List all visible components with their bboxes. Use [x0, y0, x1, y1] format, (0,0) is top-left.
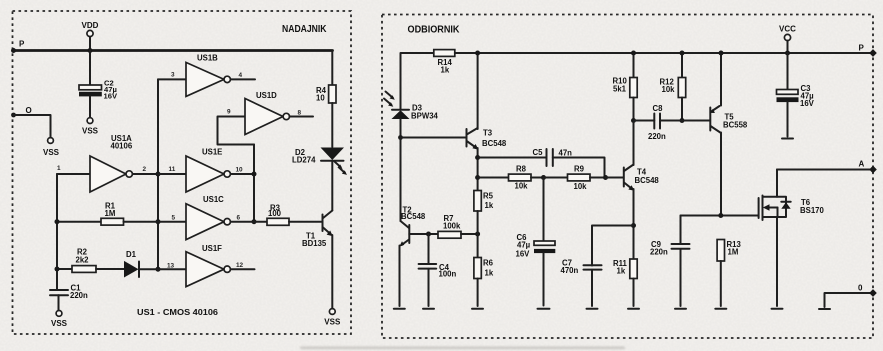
- svg-text:47n: 47n: [559, 149, 573, 158]
- svg-text:US1F: US1F: [202, 244, 222, 253]
- resistor R14 1k: [434, 50, 455, 75]
- svg-text:2k2: 2k2: [76, 256, 90, 265]
- diode D1: [124, 250, 186, 278]
- junction bus / US1A out: [156, 172, 161, 177]
- capacitor C6 47u 16V: [516, 178, 556, 306]
- junction R8/R9/C6: [541, 175, 546, 180]
- ground tick R13: [715, 308, 726, 310]
- ground tick T2: [394, 308, 405, 310]
- pin 12: [236, 262, 244, 269]
- wire receiver supply rail: [401, 53, 434, 109]
- VDD terminal: [82, 21, 99, 37]
- junction bus / D1 row: [156, 267, 161, 272]
- pin 8: [298, 110, 302, 117]
- wire O to VSS: [14, 115, 51, 137]
- wire US1B input: [158, 78, 186, 80]
- svg-text:US1C: US1C: [203, 195, 224, 204]
- transistor T5 BC558: [710, 106, 748, 133]
- junction D3 node: [398, 135, 403, 140]
- wire feedback bus vertical: [157, 79, 159, 269]
- wire rail to C2: [89, 51, 91, 86]
- junction R2 left: [55, 267, 60, 272]
- op-amp US1D inverter: [245, 91, 289, 135]
- wire US1F output stub: [231, 268, 255, 270]
- MOSFET T6 BS170: [759, 196, 825, 221]
- svg-text:11: 11: [169, 166, 176, 173]
- svg-text:LD274: LD274: [292, 156, 316, 165]
- svg-text:1M: 1M: [728, 248, 739, 257]
- junction T4 emitter / C7 row: [631, 223, 636, 228]
- svg-text:100k: 100k: [443, 222, 461, 231]
- resistor R5 1k: [474, 191, 494, 258]
- pin 1: [57, 165, 61, 172]
- junction T5 collector / R13: [718, 213, 723, 218]
- svg-text:4: 4: [239, 72, 243, 79]
- svg-text:VSS: VSS: [82, 127, 99, 136]
- svg-text:A: A: [859, 160, 865, 169]
- terminal A: [869, 166, 877, 174]
- ground tick C4: [423, 308, 434, 310]
- VCC terminal: [779, 25, 796, 41]
- svg-text:1k: 1k: [485, 201, 494, 210]
- node A output wire: [777, 160, 873, 170]
- svg-text:220n: 220n: [650, 248, 668, 257]
- junction T5 emitter rail: [719, 51, 724, 56]
- svg-text:13: 13: [167, 263, 175, 270]
- wire rail right of R14: [455, 52, 873, 54]
- svg-text:470n: 470n: [561, 266, 579, 275]
- svg-text:BC548: BC548: [635, 176, 660, 185]
- wire US1A input: [57, 173, 90, 175]
- svg-text:VSS: VSS: [43, 148, 60, 157]
- svg-text:2: 2: [143, 166, 147, 173]
- wire VDD to P rail: [89, 37, 91, 51]
- ground tick C9: [675, 308, 686, 310]
- svg-text:US1D: US1D: [256, 91, 277, 100]
- ground tick R11: [628, 308, 639, 310]
- ground tick T6: [772, 308, 783, 310]
- svg-text:VSS: VSS: [51, 319, 68, 328]
- capacitor C2 47u 16V: [79, 79, 118, 101]
- pin 13: [167, 263, 175, 270]
- capacitor C4 100n: [419, 234, 457, 306]
- svg-text:3: 3: [171, 72, 175, 79]
- node O (left terminal): [11, 106, 32, 117]
- wire P supply rail: [14, 49, 333, 52]
- svg-text:220n: 220n: [648, 132, 666, 141]
- pin 2: [143, 166, 147, 173]
- svg-text:VCC: VCC: [779, 25, 796, 34]
- receiver panel border: [382, 15, 873, 339]
- wire output bus vertical: [253, 145, 255, 222]
- transistor T1 BD135: [302, 211, 333, 249]
- resistor R13 1M: [717, 240, 741, 307]
- svg-text:T3: T3: [483, 129, 493, 138]
- wire T3 collector to rail: [477, 53, 479, 129]
- svg-text:6: 6: [237, 214, 241, 221]
- wire D3 node to T3 base: [401, 137, 467, 139]
- resistor R3 100: [267, 204, 322, 226]
- resistor R6 1k: [474, 258, 494, 307]
- svg-text:VDD: VDD: [82, 21, 99, 30]
- svg-text:10k: 10k: [515, 182, 529, 191]
- VSS terminal below T1: [324, 309, 341, 327]
- junction T4 base node: [603, 175, 608, 180]
- svg-text:BPW34: BPW34: [411, 112, 439, 121]
- svg-text:1M: 1M: [105, 209, 116, 218]
- svg-text:O: O: [26, 106, 32, 115]
- junction emitter / C5: [475, 155, 480, 160]
- capacitor C8 220n: [634, 104, 711, 141]
- svg-text:40106: 40106: [111, 142, 133, 151]
- ground tick C7: [587, 308, 598, 310]
- ground tick 0: [819, 308, 830, 310]
- svg-text:5k1: 5k1: [613, 84, 627, 93]
- scan artifact smudge below panels: [300, 347, 625, 350]
- pin 5: [172, 214, 176, 221]
- svg-text:10k: 10k: [662, 85, 676, 94]
- junction US1C out: [252, 219, 257, 224]
- transistor T4 BC548: [624, 165, 660, 191]
- svg-text:1k: 1k: [441, 66, 450, 75]
- svg-text:C5: C5: [533, 148, 544, 157]
- resistor R2 2k2: [57, 248, 125, 273]
- pin 9: [227, 109, 231, 116]
- wire US1A output to US1E input: [132, 173, 186, 175]
- svg-text:16V: 16V: [800, 99, 815, 108]
- pin 6: [237, 214, 241, 221]
- wire D3 node to T2 collector: [400, 138, 402, 222]
- capacitor C5 47n: [478, 148, 605, 178]
- VSS terminal below C2: [82, 118, 99, 136]
- capacitor C3 47u 16V: [777, 53, 815, 137]
- svg-text:C8: C8: [653, 104, 664, 113]
- ground tick R6: [472, 308, 483, 310]
- transmitter panel border: [13, 11, 352, 334]
- wire T1 emitter to VSS: [331, 235, 333, 309]
- resistor R4 10: [316, 51, 336, 148]
- svg-text:ODBIORNIK: ODBIORNIK: [408, 25, 461, 36]
- svg-text:1: 1: [57, 165, 61, 172]
- svg-text:P: P: [859, 44, 865, 53]
- wire T4 emitter down: [633, 189, 635, 259]
- svg-text:1k: 1k: [485, 269, 494, 278]
- wire US1C output to R3: [231, 221, 268, 223]
- junction R12/T5 base: [680, 118, 685, 123]
- resistor R11 1k: [613, 259, 637, 306]
- capacitor C1 220n: [50, 283, 88, 310]
- wire T2 base row: [409, 233, 438, 235]
- wire C5/R9 node to T4 base: [606, 177, 624, 179]
- panel title ODBIORNIK: [408, 25, 461, 36]
- transistor T2 BC548: [399, 206, 426, 247]
- VSS terminal below O: [43, 138, 60, 157]
- op-amp US1F inverter: [186, 244, 230, 287]
- capacitor C9 220n: [650, 216, 690, 307]
- wire US1E input: [158, 173, 186, 175]
- ground tick C3: [782, 138, 793, 140]
- wire D2 to T1 collector: [331, 161, 333, 211]
- svg-text:16V: 16V: [516, 250, 531, 259]
- svg-text:NADAJNIK: NADAJNIK: [282, 24, 327, 35]
- capacitor C7 470n: [561, 226, 634, 307]
- svg-text:P: P: [19, 40, 25, 49]
- op-amp US1A 40106 inverter: [90, 134, 133, 192]
- junction emitter / R8: [475, 175, 480, 180]
- wire T5 emitter to rail: [720, 53, 722, 106]
- svg-text:R9: R9: [574, 165, 585, 174]
- svg-text:1k: 1k: [617, 267, 626, 276]
- wire T6 source to ground: [776, 217, 778, 306]
- svg-text:10: 10: [236, 167, 244, 174]
- svg-text:12: 12: [236, 262, 244, 269]
- pin 11: [169, 166, 176, 173]
- terminal 0: [869, 289, 877, 297]
- label US1 - CMOS 40106: [137, 307, 218, 317]
- svg-text:R8: R8: [516, 165, 527, 174]
- transistor T3 BC548: [467, 128, 507, 150]
- resistor R12 10k: [660, 53, 686, 121]
- svg-text:US1E: US1E: [202, 148, 222, 157]
- pin 4: [239, 72, 243, 79]
- junction R10/C8/T4: [631, 118, 636, 123]
- wire left input column: [56, 174, 58, 290]
- svg-text:BC558: BC558: [723, 121, 748, 130]
- D2 light emission arrows: [335, 162, 348, 175]
- wire T5 collector down: [720, 133, 722, 216]
- pin 3: [171, 72, 175, 79]
- wire gate row: [681, 215, 759, 217]
- svg-text:9: 9: [227, 109, 231, 116]
- svg-text:5: 5: [172, 214, 176, 221]
- pin 10: [236, 167, 244, 174]
- svg-text:R5: R5: [483, 192, 494, 201]
- junction bus / R1 row: [156, 219, 161, 224]
- svg-text:BC548: BC548: [401, 212, 426, 221]
- op-amp US1E inverter: [186, 148, 230, 193]
- svg-text:16V: 16V: [104, 92, 118, 101]
- svg-text:US1B: US1B: [197, 54, 218, 63]
- node P (left terminal): [11, 40, 25, 54]
- op-amp US1C inverter: [186, 195, 230, 240]
- LED D2 LD274: [292, 148, 344, 165]
- svg-text:8: 8: [298, 110, 302, 117]
- wire T4 collector: [633, 121, 635, 166]
- wire VCC to rail: [787, 41, 789, 53]
- ground tick C6: [538, 308, 550, 310]
- wire T3 emitter column: [477, 148, 479, 191]
- svg-text:47µ: 47µ: [517, 241, 531, 250]
- junction R10 rail: [631, 51, 636, 56]
- wire US1E output to bus: [231, 173, 255, 175]
- svg-text:BD135: BD135: [302, 239, 327, 248]
- VSS terminal below C1: [51, 311, 68, 329]
- svg-text:10: 10: [316, 94, 325, 103]
- svg-text:BS170: BS170: [800, 206, 825, 215]
- svg-text:US1 - CMOS 40106: US1 - CMOS 40106: [137, 307, 218, 317]
- resistor R8 10k: [478, 165, 544, 191]
- svg-text:220n: 220n: [70, 291, 88, 300]
- svg-text:10k: 10k: [574, 182, 588, 191]
- wire US1B output stub: [231, 78, 256, 80]
- wire T6 drain to A: [776, 170, 778, 197]
- wire US1D input from US1E output: [218, 117, 255, 145]
- resistor R9 10k: [544, 165, 606, 192]
- junction US1E out: [252, 172, 257, 177]
- junction T3 collector rail: [475, 51, 480, 56]
- photodiode D3 BPW34: [392, 104, 439, 138]
- junction R1 left: [55, 219, 60, 224]
- D3 light arrows: [384, 92, 395, 107]
- junction VDD rail: [88, 48, 93, 53]
- resistor R1 1M: [57, 202, 186, 226]
- junction R7/R5/R6: [475, 232, 480, 237]
- svg-text:100: 100: [268, 209, 282, 218]
- junction VCC rail: [785, 51, 790, 56]
- panel title NADAJNIK: [282, 24, 327, 35]
- wire C2 to VSS: [89, 96, 91, 117]
- junction R12 rail: [680, 51, 685, 56]
- wire US1D output stub: [290, 116, 313, 118]
- svg-text:VSS: VSS: [324, 318, 341, 327]
- node P right terminal: [859, 44, 877, 57]
- junction C4: [426, 232, 431, 237]
- node 0 output wire: [825, 284, 874, 308]
- svg-text:100n: 100n: [439, 270, 457, 279]
- resistor R10 5k1: [613, 53, 638, 121]
- resistor R7 100k: [438, 214, 478, 238]
- svg-text:BC548: BC548: [482, 139, 507, 148]
- svg-text:D1: D1: [126, 250, 137, 259]
- op-amp US1B inverter: [186, 54, 230, 97]
- svg-text:R6: R6: [483, 259, 494, 268]
- wire T2 emitter to ground: [399, 246, 401, 307]
- svg-text:0: 0: [858, 284, 863, 293]
